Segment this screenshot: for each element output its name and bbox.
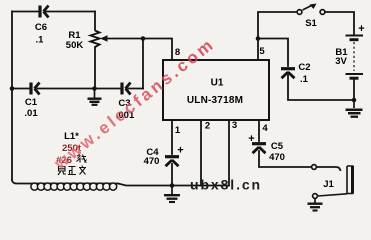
wiper arrow of R1 <box>100 35 108 42</box>
wire battery bottom <box>353 80 355 101</box>
switch S1 <box>297 10 302 15</box>
svg-text:4: 4 <box>262 123 268 134</box>
svg-text:U1: U1 <box>211 78 224 89</box>
node dot bus <box>170 183 175 188</box>
svg-text:3V: 3V <box>335 56 347 67</box>
battery B1 3V <box>346 36 364 79</box>
svg-text:C1: C1 <box>25 97 38 108</box>
svg-text:470: 470 <box>269 152 285 163</box>
zheng <box>68 167 76 175</box>
capacitor C6 <box>40 6 49 18</box>
node dot R1 bottom <box>92 86 97 91</box>
node dot battery bottom <box>352 98 357 103</box>
wire top-left horizontal <box>12 11 38 13</box>
wire node to pin8 <box>143 39 172 61</box>
text jian-zheng-wen (see text) <box>58 166 86 176</box>
inductor L1 coil <box>31 183 117 190</box>
wire R1 bottom to row <box>94 47 96 89</box>
node dot left row <box>10 86 15 91</box>
svg-text:5: 5 <box>259 46 265 57</box>
svg-text:+: + <box>358 23 364 35</box>
ground under B1 <box>346 100 363 117</box>
capacitor C2 <box>281 69 295 79</box>
wire corner to R1 <box>94 12 96 31</box>
svg-text:C6: C6 <box>35 22 47 33</box>
wire wiper <box>104 38 143 40</box>
glyph xian (wire) <box>77 155 87 163</box>
svg-text:C5: C5 <box>271 141 284 152</box>
svg-text:C2: C2 <box>298 62 310 73</box>
svg-text:J1: J1 <box>323 179 334 190</box>
wire C2 branch <box>258 39 288 67</box>
op-amp U1 ULN-3718M box <box>163 60 269 120</box>
capacitor C5 <box>252 144 266 154</box>
svg-text:3: 3 <box>232 120 237 131</box>
wire pin2 down <box>200 120 202 186</box>
wire pin1 down <box>171 120 173 154</box>
svg-text:.1: .1 <box>300 74 309 85</box>
wire pin3 down <box>228 120 230 186</box>
node dot wiper <box>141 36 146 41</box>
svg-text:+: + <box>248 133 254 145</box>
wen <box>79 166 86 175</box>
jian <box>58 167 66 176</box>
svg-text:+: + <box>177 145 183 157</box>
node dot pin5 <box>256 36 261 41</box>
ground under bus node <box>164 186 180 203</box>
svg-text:.1: .1 <box>36 35 45 46</box>
svg-text:50K: 50K <box>66 40 84 51</box>
wire pin5 up <box>258 12 297 60</box>
wire bottom bus <box>118 184 229 186</box>
svg-text:2: 2 <box>205 121 210 132</box>
svg-text:ULN-3718M: ULN-3718M <box>187 95 243 106</box>
svg-text:470: 470 <box>144 156 160 167</box>
capacitor C1 <box>31 83 40 95</box>
ground under J1 <box>308 199 323 211</box>
wire pin4 down <box>258 120 260 141</box>
svg-text:.01: .01 <box>24 108 38 119</box>
resistor R1 (pot) <box>91 31 100 48</box>
svg-text:ubx8l.cn: ubx8l.cn <box>190 177 262 193</box>
jack sleeve contact <box>313 194 318 199</box>
capacitor C4 <box>165 157 179 167</box>
capacitor C3 <box>122 83 131 95</box>
wire row right up to wiper node <box>142 39 144 89</box>
svg-text:S1: S1 <box>305 18 317 29</box>
jack J1 <box>312 165 317 170</box>
wire left vertical <box>11 12 13 181</box>
svg-text:1: 1 <box>175 125 181 136</box>
wire coil bus top <box>12 180 118 184</box>
wire row C1 C3 <box>12 88 30 90</box>
wire S1 to B1 corner <box>325 12 354 34</box>
ground under R1 <box>88 89 102 105</box>
